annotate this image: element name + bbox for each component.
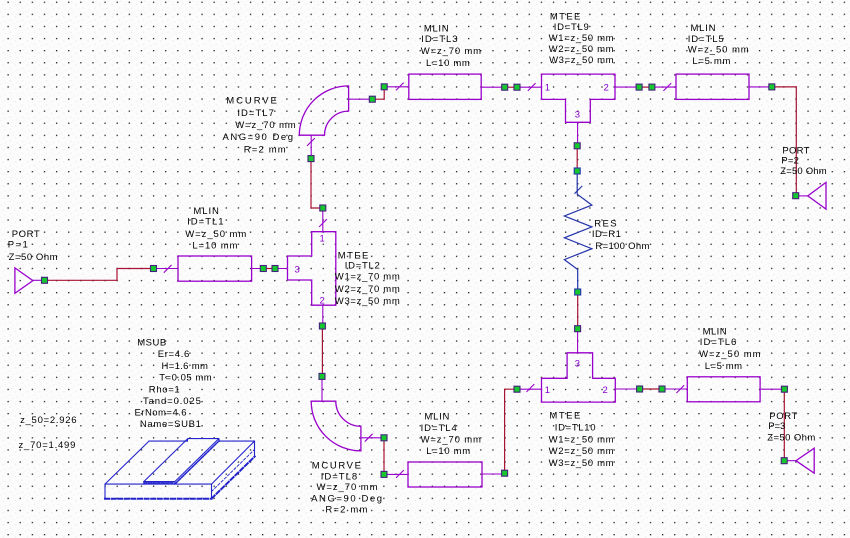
pin numbers TL10 [545, 359, 608, 397]
svg-text:MLIN: MLIN [193, 206, 219, 217]
svg-text:W2=z_70 mm: W2=z_70 mm [335, 284, 400, 295]
wire port P1 to TL1 pin1 [48, 269, 151, 281]
svg-text:ID=TL5: ID=TL5 [688, 34, 724, 45]
wire TL9 pin3 to R1 pin1 [576, 149, 578, 168]
svg-text:W3=z_50 mm: W3=z_50 mm [549, 55, 614, 66]
node TL9 pin1 [514, 84, 520, 90]
svg-text:Tand=0.025: Tand=0.025 [143, 396, 201, 407]
svg-text:W2=z_50 mm: W2=z_50 mm [549, 446, 614, 457]
port P2 labels [780, 146, 827, 177]
svg-text:W=z_50 mm: W=z_50 mm [699, 349, 760, 360]
wire TL4 pin2 to TL10 pin1 [505, 389, 514, 471]
svg-text:Er=4.6: Er=4.6 [158, 349, 190, 360]
wire TL2 pin2 to TL8 pin1 [321, 329, 323, 373]
node port P2 pin [793, 193, 799, 199]
node R1 pin2 [575, 289, 581, 295]
svg-text:3: 3 [575, 359, 580, 370]
svg-text:1: 1 [545, 385, 550, 396]
wire TL10 pin2 to TL6 pin1 [643, 388, 659, 390]
svg-text:W1=z_50 mm: W1=z_50 mm [549, 33, 614, 44]
svg-text:1: 1 [545, 83, 550, 94]
node TL9 pin3 [574, 143, 580, 149]
svg-text:P=2: P=2 [781, 155, 799, 166]
mtee TL9 [520, 74, 636, 143]
svg-text:W3=z_50 mm: W3=z_50 mm [335, 296, 400, 307]
node TL6 pin1 [659, 386, 665, 392]
mlin TL1 labels [185, 206, 246, 252]
svg-text:2: 2 [320, 295, 325, 306]
svg-text:W=z_70 mm: W=z_70 mm [317, 482, 378, 493]
svg-text:ID=TL6: ID=TL6 [700, 337, 737, 348]
svg-text:R=100 Ohm: R=100 Ohm [595, 241, 649, 252]
svg-text:L=5 mm: L=5 mm [705, 361, 742, 372]
mlin TL6 labels [699, 327, 760, 372]
node TL8 pin1 [319, 373, 325, 379]
node port P1 pin [42, 277, 48, 283]
svg-text:ANG=90 Deg: ANG=90 Deg [223, 132, 294, 143]
svg-text:MLIN: MLIN [424, 412, 449, 423]
svg-text:ID=TL7: ID=TL7 [237, 108, 274, 119]
node TL8 pin2 [381, 435, 387, 441]
svg-text:ID=R1: ID=R1 [592, 229, 621, 240]
mlin TL1 [157, 256, 261, 281]
node TL10 pin2 [637, 386, 643, 392]
substrate drawing MSUB [105, 439, 255, 499]
node TL1 pin2 [260, 266, 266, 272]
port P1 labels [8, 229, 58, 263]
svg-text:Name=SUB1: Name=SUB1 [140, 419, 201, 430]
svg-text:L=10 mm: L=10 mm [192, 241, 237, 252]
svg-text:ID=TL1: ID=TL1 [187, 217, 224, 228]
svg-text:Rho=1: Rho=1 [149, 384, 180, 395]
wire TL1 pin2 to TL2 pin3 [266, 268, 272, 270]
svg-text:2: 2 [603, 385, 608, 396]
node TL2 pin3 [272, 266, 278, 272]
svg-text:RES: RES [594, 219, 616, 230]
wire R1 pin2 to TL10 pin3 [577, 295, 579, 326]
mlin TL4 [387, 462, 502, 487]
svg-text:ID=TL10: ID=TL10 [555, 423, 596, 434]
svg-text:Z=50 Ohm: Z=50 Ohm [767, 432, 815, 443]
svg-text:P=3: P=3 [768, 421, 785, 432]
svg-text:1: 1 [320, 234, 325, 245]
node TL2 pin2 [319, 323, 325, 329]
node R1 pin1 [574, 168, 580, 174]
svg-text:z_50=2.926: z_50=2.926 [20, 415, 76, 426]
connection nodes [42, 84, 799, 478]
svg-text:T=0.05 mm: T=0.05 mm [159, 372, 212, 383]
svg-text:W=z_70 mm: W=z_70 mm [421, 434, 481, 445]
pin numbers TL9 [545, 83, 609, 121]
svg-text:ID=TL4: ID=TL4 [421, 423, 457, 434]
node port P3 pin [781, 458, 787, 464]
mlin TL3 labels [421, 24, 481, 70]
wire TL8 pin2 to TL4 pin1 [383, 441, 385, 472]
svg-text:L=5 mm: L=5 mm [692, 56, 730, 67]
wire TL9 pin2 to TL5 pin1 [642, 86, 649, 88]
node TL6 pin2 [781, 386, 787, 392]
svg-text:MSUB: MSUB [137, 338, 166, 349]
port P1 [15, 268, 42, 293]
wire TL5 pin2 to port P2 [775, 87, 796, 193]
mtee TL10 labels [549, 411, 614, 469]
svg-text:W=z_50 mm: W=z_50 mm [185, 229, 246, 240]
svg-text:PORT: PORT [12, 229, 40, 240]
svg-text:ErNom=4.6: ErNom=4.6 [135, 408, 187, 419]
resistor R1 labels [592, 219, 650, 252]
mcurve TL7 labels [223, 95, 296, 155]
svg-text:R=2 mm: R=2 mm [244, 144, 286, 155]
mcurve TL7 [299, 86, 369, 156]
wire TL7 pin1 to TL2 pin1 [311, 162, 320, 208]
wire TL3 pin2 to TL9 pin1 [508, 86, 514, 88]
svg-text:P=1: P=1 [8, 239, 28, 250]
node TL9 pin2 [636, 84, 642, 90]
node TL4 pin2 [502, 470, 508, 476]
svg-text:3: 3 [575, 110, 580, 121]
svg-text:H=1.6 mm: H=1.6 mm [162, 361, 208, 372]
node TL7 pin2 [369, 96, 375, 102]
wire TL7 pin2 to TL3 pin1 [375, 90, 384, 99]
node TL3 pin2 [502, 84, 508, 90]
resistor R1 [564, 174, 592, 289]
pin numbers TL2 [295, 234, 325, 307]
mtee TL10 [520, 332, 637, 402]
svg-text:ANG=90 Deg: ANG=90 Deg [311, 493, 382, 504]
mcurve TL8 labels [311, 460, 382, 515]
svg-text:ID=TL3: ID=TL3 [421, 34, 457, 45]
node TL4 pin1 [381, 471, 387, 477]
mlin TL3 [387, 74, 502, 99]
svg-text:W1=z_50 mm: W1=z_50 mm [549, 434, 614, 445]
node TL5 pin1 [649, 84, 655, 90]
node TL3 pin1 [381, 84, 387, 90]
mlin TL5 [655, 74, 769, 99]
port P2 [799, 182, 826, 209]
node TL2 pin1 [320, 205, 326, 211]
svg-text:W3=z_50 mm: W3=z_50 mm [549, 458, 614, 469]
svg-text:L=10 mm: L=10 mm [426, 446, 470, 457]
port P3 [787, 448, 814, 473]
node TL1 pin1 [151, 266, 157, 272]
node TL7 pin1 [308, 156, 314, 162]
svg-text:ID=TL9: ID=TL9 [554, 22, 589, 33]
svg-text:W=z_70 mm: W=z_70 mm [421, 46, 481, 57]
mlin TL5 labels [688, 23, 749, 67]
node TL10 pin3 [575, 326, 581, 332]
svg-text:W=z_70 mm: W=z_70 mm [235, 120, 296, 131]
svg-text:L=10 mm: L=10 mm [426, 58, 470, 69]
svg-text:W=z_50 mm: W=z_50 mm [688, 45, 749, 56]
svg-text:MLIN: MLIN [691, 23, 716, 34]
svg-text:Z=50 Ohm: Z=50 Ohm [780, 166, 827, 177]
svg-text:W2=z_50 mm: W2=z_50 mm [549, 44, 614, 55]
svg-text:R=2 mm: R=2 mm [325, 505, 367, 516]
mtee TL9 labels [549, 12, 614, 66]
node TL10 pin1 [514, 386, 520, 392]
svg-text:Z=50 Ohm: Z=50 Ohm [9, 252, 58, 263]
wire TL6 pin2 to port P3 [783, 392, 785, 457]
mlin TL4 labels [421, 412, 481, 458]
svg-text:z_70=1.499: z_70=1.499 [19, 440, 76, 451]
mcurve TL8 [311, 379, 381, 451]
node TL5 pin2 [769, 84, 775, 90]
port P3 labels [767, 411, 815, 443]
svg-text:2: 2 [604, 83, 609, 94]
mtee TL2 [278, 211, 336, 323]
mtee TL2 labels [335, 250, 400, 307]
svg-text:3: 3 [295, 264, 300, 275]
svg-text:W1=z_70 mm: W1=z_70 mm [335, 272, 400, 283]
msub SUB1 labels [135, 338, 212, 431]
mlin TL6 [665, 377, 781, 402]
svg-text:ID=TL2: ID=TL2 [345, 260, 380, 271]
